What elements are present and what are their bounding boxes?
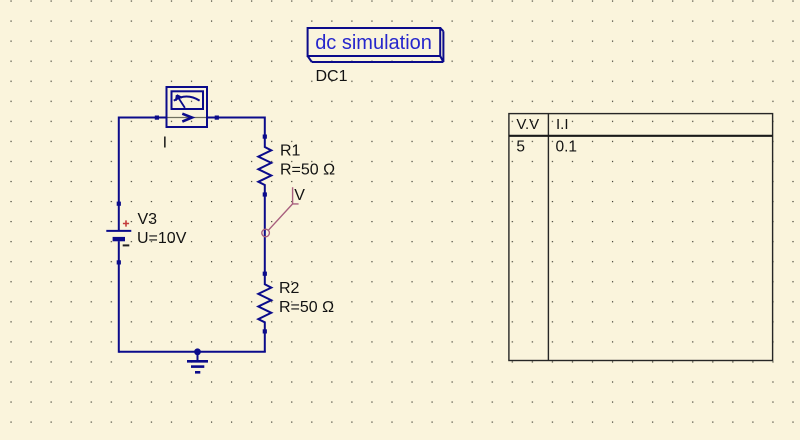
ground xyxy=(187,352,208,373)
svg-text:V: V xyxy=(294,187,305,204)
wire right vertical (R1 bottom to R2 top) xyxy=(264,195,266,274)
value R=50 ohm xyxy=(280,161,335,178)
label V3 xyxy=(138,211,158,228)
svg-text:V3: V3 xyxy=(138,211,158,228)
table header I.I xyxy=(556,116,569,133)
wire top-right horizontal (ammeter to corner) xyxy=(217,117,265,119)
wire left vertical (top corner to V3 top pin) xyxy=(118,117,120,204)
results table frame xyxy=(509,114,773,361)
node V (probe label line) xyxy=(262,187,299,237)
text dc simulation xyxy=(315,32,432,54)
value R=50 ohm xyxy=(279,299,334,316)
label R1 xyxy=(280,142,301,159)
svg-text:DC1: DC1 xyxy=(316,68,348,85)
svg-text:R=50 Ω: R=50 Ω xyxy=(279,299,334,316)
resistor R1 xyxy=(258,135,271,197)
svg-text:dc simulation: dc simulation xyxy=(315,32,432,54)
wire bottom horizontal xyxy=(119,351,266,353)
label V (node name) xyxy=(294,187,305,204)
svg-text:U=10V: U=10V xyxy=(137,230,187,247)
ammeter Pr1 xyxy=(155,87,219,127)
junction ground node xyxy=(194,348,201,355)
table header V.V xyxy=(516,116,539,133)
voltage source V3 xyxy=(106,202,131,265)
svg-text:V.V: V.V xyxy=(516,116,539,133)
svg-text:5: 5 xyxy=(516,139,525,156)
label I (ammeter name) xyxy=(163,135,167,152)
wire top-left horizontal xyxy=(119,117,157,119)
svg-text:R=50 Ω: R=50 Ω xyxy=(280,161,335,178)
wire right vertical (R2 bottom to bottom corner) xyxy=(264,331,266,351)
label R2 xyxy=(279,280,300,297)
resistor R2 xyxy=(258,272,271,334)
dc simulation box xyxy=(308,28,444,62)
label DC1 xyxy=(316,68,348,85)
svg-text:I.I: I.I xyxy=(556,116,569,133)
table value 0.1 xyxy=(556,139,578,156)
value U=10V xyxy=(137,230,187,247)
wire left vertical (V3 bottom pin to bottom corner) xyxy=(118,262,120,352)
svg-text:R1: R1 xyxy=(280,142,301,159)
svg-text:R2: R2 xyxy=(279,280,300,297)
svg-text:0.1: 0.1 xyxy=(556,139,578,156)
svg-text:I: I xyxy=(163,135,167,152)
table value 5 xyxy=(516,139,525,156)
wire right vertical (corner to R1 top) xyxy=(264,117,266,137)
